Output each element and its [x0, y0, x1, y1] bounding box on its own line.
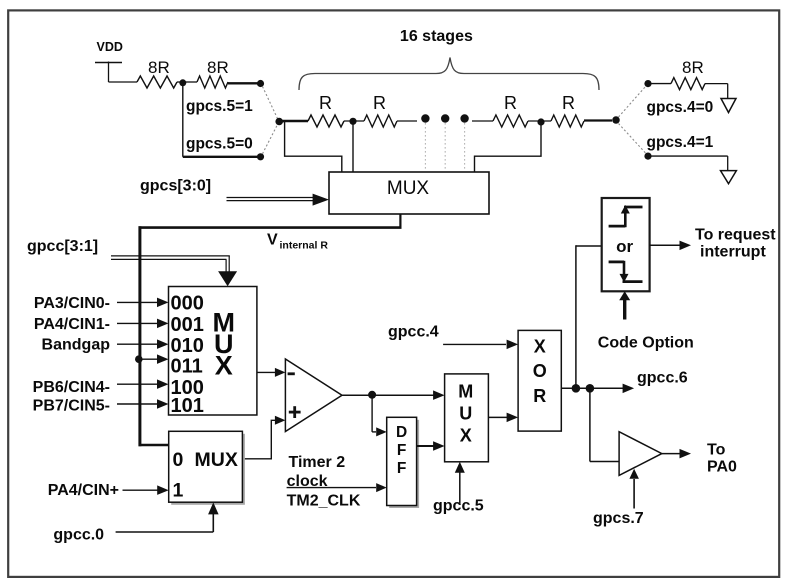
arrow DFF out into MUX4 — [433, 441, 445, 451]
ground (upper right) — [721, 99, 736, 113]
DFF letter D — [396, 424, 407, 441]
svg-text:Bandgap: Bandgap — [42, 337, 111, 354]
PA4/CIN+ label — [48, 482, 119, 499]
wire — [177, 81, 183, 83]
gpcc[3:1] label — [27, 238, 98, 255]
svg-text:VDD: VDD — [97, 40, 123, 54]
node E — [368, 391, 376, 399]
gpcc.0 label — [53, 527, 104, 544]
wire — [662, 453, 681, 455]
arrow to gpcc.6 — [623, 384, 635, 394]
wire — [117, 403, 158, 405]
node G — [586, 384, 595, 393]
svg-text:011: 011 — [171, 355, 203, 377]
svg-text:gpcc.6: gpcc.6 — [637, 370, 688, 387]
svg-text:R: R — [533, 386, 546, 406]
svg-text:MUX: MUX — [195, 449, 238, 471]
wire — [488, 416, 507, 418]
wire — [116, 513, 214, 532]
wire — [397, 120, 417, 122]
svg-text:gpcs.7: gpcs.7 — [593, 510, 644, 527]
node F — [572, 384, 581, 393]
falling-edge symbol — [609, 261, 643, 283]
arrow gpcs.7 into buffer — [629, 469, 639, 479]
XOR letter O — [533, 361, 547, 381]
rising-edge symbol — [609, 205, 643, 227]
svg-text:gpcc[3:1]: gpcc[3:1] — [27, 238, 98, 255]
node C — [537, 118, 544, 125]
svg-text:TM2_CLK: TM2_CLK — [287, 493, 361, 510]
arrow into 000 — [157, 298, 169, 308]
switch contact gpcs.4=1 — [644, 153, 651, 160]
gpcs.5=1 label — [186, 98, 253, 115]
wire — [561, 387, 623, 389]
resistor 8R (left-2) — [197, 76, 228, 88]
svg-text:PA0: PA0 — [707, 459, 737, 476]
wire — [228, 82, 258, 84]
MUX2 row 001 — [171, 314, 204, 336]
svg-text:M: M — [458, 382, 473, 402]
svg-text:Code Option: Code Option — [598, 335, 694, 352]
svg-text:PB7/CIN5-: PB7/CIN5- — [33, 398, 110, 415]
wire — [342, 394, 434, 396]
arrow into 001 — [157, 319, 169, 329]
switch pole node (right) — [612, 116, 620, 124]
wire — [633, 479, 635, 509]
wire — [528, 120, 551, 122]
svg-text:010: 010 — [171, 335, 204, 357]
svg-text:PA3/CIN0-: PA3/CIN0- — [34, 295, 110, 312]
ladder continuation dots — [421, 114, 469, 122]
gpcs[3:0] label — [140, 178, 211, 195]
wire — [584, 119, 612, 121]
wire — [182, 83, 184, 157]
gpcc.4 label — [388, 324, 439, 341]
VDD label — [97, 40, 123, 54]
node A — [179, 79, 186, 86]
svg-text:To request: To request — [695, 227, 776, 244]
wire — [472, 120, 493, 122]
arrow into MUX3 row1 — [157, 485, 169, 495]
svg-text:gpcs[3:0]: gpcs[3:0] — [140, 178, 211, 195]
arrow into 011 — [157, 354, 169, 364]
wire — [648, 83, 671, 85]
comparator minus sign — [288, 372, 295, 375]
svg-text:O: O — [533, 361, 547, 381]
svg-text:PA4/CIN+: PA4/CIN+ — [48, 482, 119, 499]
resistor-ladder MUX U1 — [329, 172, 489, 214]
wire — [705, 84, 728, 99]
arrow gpcc.0 into MUX3 — [208, 502, 219, 514]
svg-text:F: F — [397, 442, 406, 459]
MUX4 letter X — [460, 425, 472, 445]
svg-text:000: 000 — [171, 293, 204, 315]
R label (ladder-1) — [319, 93, 332, 113]
wire — [475, 124, 542, 172]
switch pole node — [275, 118, 283, 126]
PA4/CIN1- label — [34, 316, 110, 333]
svg-text:gpcc.0: gpcc.0 — [53, 527, 104, 544]
svg-text:8R: 8R — [148, 58, 170, 77]
ground (lower right) — [721, 171, 737, 184]
wire — [459, 470, 461, 505]
svg-text:1: 1 — [173, 480, 184, 502]
comparator plus sign — [289, 406, 301, 418]
comparator U3 — [285, 359, 342, 432]
wire — [279, 122, 342, 173]
arrow Code Option into OR box — [619, 291, 630, 300]
DFF-bypass MUX U6 — [445, 374, 489, 462]
svg-text:internal R: internal R — [280, 240, 329, 252]
To request interrupt label — [695, 227, 776, 261]
output buffer U9 — [619, 432, 662, 476]
brace (16 stages) — [299, 58, 599, 91]
wire — [109, 81, 138, 83]
svg-text:R: R — [504, 93, 517, 113]
svg-text:101: 101 — [171, 395, 204, 417]
switch contact gpcs.5=1 — [257, 80, 264, 87]
svg-text:F: F — [397, 460, 406, 477]
wire — [623, 297, 626, 320]
output-select MUX U5 (0 MUX) — [169, 431, 245, 505]
svg-text:X: X — [215, 351, 233, 381]
gpcs[3:0] bus wire — [227, 198, 315, 201]
resistor 8R (left-1) — [137, 76, 177, 88]
arrow gpcc.4 into XOR — [507, 340, 518, 350]
wire — [279, 120, 308, 122]
MUX4 letter U — [459, 404, 472, 424]
R label (ladder-2) — [373, 93, 386, 113]
arrow MUX4 out into XOR — [507, 413, 518, 423]
tap lines (dotted) — [425, 123, 464, 171]
wire — [139, 444, 169, 447]
or label — [616, 237, 633, 256]
wire — [443, 343, 506, 345]
XOR letter X — [534, 336, 546, 356]
wire — [590, 388, 619, 461]
node D (V internal tap) — [135, 355, 143, 363]
8R label (left-2) — [207, 58, 229, 77]
arrow into minus input — [275, 368, 286, 377]
arrow gpcc.5 into MUX4 — [455, 462, 465, 473]
arrow into 100 — [157, 379, 169, 389]
arrow into 101 — [157, 399, 169, 409]
MUX3 row 0 label — [173, 449, 184, 471]
8R label (left-1) — [148, 58, 170, 77]
switch blade (dashed) — [263, 87, 278, 154]
wire — [117, 322, 158, 324]
svg-text:16 stages: 16 stages — [400, 28, 473, 45]
Bandgap label — [42, 337, 111, 354]
svg-text:U: U — [459, 404, 472, 424]
resistor 8R (right) — [671, 78, 705, 90]
gpcc[3:1] bus arrowhead — [218, 271, 237, 286]
gpcs.5=0 label — [186, 136, 253, 153]
gpcc[3:1] bus wire — [111, 256, 230, 272]
switch contact gpcs.5=0 — [257, 153, 264, 160]
svg-text:interrupt: interrupt — [700, 244, 766, 261]
svg-text:gpcs.4=1: gpcs.4=1 — [647, 134, 714, 151]
arrow to PA0 — [680, 449, 692, 459]
svg-text:X: X — [534, 336, 546, 356]
resistor R (ladder-1) — [308, 115, 344, 127]
arrow into plus input — [275, 416, 286, 425]
DFF letter F2 — [397, 460, 406, 477]
wire — [117, 301, 158, 303]
8R label (right) — [682, 58, 704, 77]
arrow into DFF clock — [376, 483, 387, 492]
resistor R (ladder-4) — [551, 115, 584, 127]
XOR letter R — [533, 386, 546, 406]
wire — [242, 420, 275, 459]
PA3/CIN0- label — [34, 295, 110, 312]
resistor R (ladder-2) — [364, 115, 397, 127]
node B — [349, 118, 356, 125]
arrow into MUX4 — [433, 390, 445, 400]
gpcc.5 label — [433, 498, 484, 515]
wire — [648, 156, 728, 171]
V internal R label — [267, 232, 328, 252]
svg-text:0: 0 — [173, 449, 184, 471]
wire — [399, 214, 401, 228]
wire — [576, 245, 602, 388]
wire — [117, 343, 158, 345]
svg-text:Timer 2: Timer 2 — [289, 454, 346, 471]
Code Option label — [598, 335, 694, 352]
To PA0 label — [707, 442, 737, 476]
wire — [257, 371, 275, 373]
arrow into 010 — [157, 339, 169, 349]
DFF letter F1 — [397, 442, 406, 459]
svg-text:V: V — [267, 232, 278, 249]
svg-text:001: 001 — [171, 314, 204, 336]
svg-text:gpcs.4=0: gpcs.4=0 — [647, 99, 714, 116]
wire — [183, 81, 197, 83]
switch contact gpcs.4=0 — [644, 80, 651, 87]
XOR gate U7 — [518, 330, 561, 431]
gpcs.7 label — [593, 510, 644, 527]
wire — [417, 445, 434, 447]
svg-text:To: To — [707, 442, 726, 459]
MUX2 row 010 — [171, 335, 204, 357]
MUX2 row 000 — [171, 293, 204, 315]
svg-text:8R: 8R — [207, 58, 229, 77]
svg-text:gpcs.5=0: gpcs.5=0 — [186, 136, 253, 153]
wire — [139, 358, 158, 360]
PB7/CIN5- label — [33, 398, 110, 415]
svg-text:MUX: MUX — [387, 178, 430, 199]
DFF U4 — [387, 417, 419, 508]
switch blade right (dashed) — [619, 87, 646, 154]
svg-text:R: R — [562, 93, 575, 113]
16 stages label — [400, 28, 473, 45]
resistor R (ladder-3) — [493, 115, 528, 127]
R label (ladder-3) — [504, 93, 517, 113]
svg-text:R: R — [319, 93, 332, 113]
edge-select OR box U8 — [602, 198, 650, 291]
MUX3 row 1 label — [173, 480, 184, 502]
input MUX U2 — [169, 287, 257, 416]
svg-text:or: or — [616, 237, 633, 256]
wire (vertical feed) — [138, 226, 141, 446]
MUX2 letter U — [214, 329, 234, 359]
wire — [287, 487, 376, 489]
arrow into DFF D input — [376, 427, 387, 436]
gpcc.6 label — [637, 370, 688, 387]
PB6/CIN4- label — [33, 379, 110, 396]
MUX2 row 101 — [171, 395, 204, 417]
svg-text:R: R — [373, 93, 386, 113]
gpcs.4=0 label — [647, 99, 714, 116]
svg-text:D: D — [396, 424, 407, 441]
Timer 2 clock label — [287, 454, 361, 510]
MUX2 letter M — [212, 308, 235, 338]
wire — [123, 489, 159, 491]
svg-text:gpcc.4: gpcc.4 — [388, 324, 439, 341]
wire — [650, 244, 680, 246]
svg-text:PA4/CIN1-: PA4/CIN1- — [34, 316, 110, 333]
wire — [344, 120, 364, 122]
wire — [183, 156, 258, 158]
wire — [117, 383, 158, 385]
svg-text:gpcs.5=1: gpcs.5=1 — [186, 98, 253, 115]
svg-text:PB6/CIN4-: PB6/CIN4- — [33, 379, 110, 396]
wire — [372, 395, 376, 432]
svg-text:gpcc.5: gpcc.5 — [433, 498, 484, 515]
wire (V internal R rail) — [139, 226, 402, 229]
MUX3 MUX label — [195, 449, 238, 471]
R label (ladder-4) — [562, 93, 575, 113]
VDD supply symbol — [95, 62, 122, 83]
svg-text:8R: 8R — [682, 58, 704, 77]
gpcs[3:0] bus arrowhead — [313, 194, 329, 206]
svg-text:X: X — [460, 425, 472, 445]
MUX2 letter X — [215, 351, 233, 381]
arrow to interrupt — [680, 241, 692, 251]
MUX4 letter M — [458, 382, 473, 402]
MUX2 row 011 — [171, 355, 203, 377]
MUX2 row 100 — [171, 377, 204, 399]
gpcs.4=1 label — [647, 134, 714, 151]
wire — [352, 121, 354, 172]
